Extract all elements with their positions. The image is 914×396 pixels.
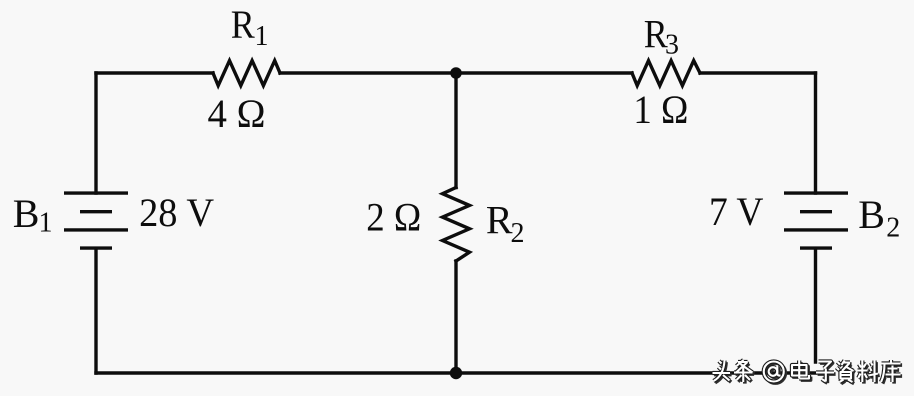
svg-text:B: B — [13, 191, 40, 236]
svg-text:4 Ω: 4 Ω — [208, 91, 266, 136]
svg-text:R: R — [231, 2, 255, 47]
svg-text:7 V: 7 V — [709, 189, 764, 234]
svg-text:B: B — [858, 192, 885, 237]
svg-text:2: 2 — [511, 218, 525, 249]
svg-text:3: 3 — [665, 30, 679, 61]
svg-text:28 V: 28 V — [139, 190, 214, 235]
svg-text:R: R — [486, 197, 513, 242]
svg-text:1: 1 — [39, 207, 53, 238]
svg-text:1: 1 — [255, 21, 269, 52]
svg-text:2: 2 — [886, 213, 900, 244]
svg-text:1 Ω: 1 Ω — [633, 87, 688, 132]
svg-text:2 Ω: 2 Ω — [366, 194, 421, 239]
